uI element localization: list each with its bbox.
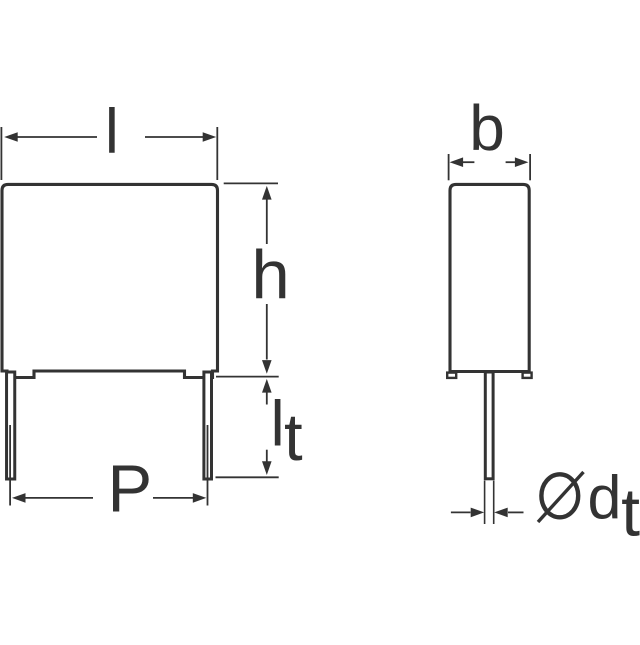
extension line P left xyxy=(9,425,11,506)
extension line b left xyxy=(448,154,450,180)
extension line dt right xyxy=(493,481,495,524)
arrow P right xyxy=(193,493,207,503)
lead right (front view) xyxy=(204,372,212,479)
arrow b right xyxy=(515,157,529,167)
dimension line dt left xyxy=(451,511,471,513)
svg-text:h: h xyxy=(251,237,289,314)
dimension line P xyxy=(25,497,93,499)
svg-text:t: t xyxy=(621,475,640,551)
foot right (side view) xyxy=(523,373,532,378)
extension line h bottom / lt top xyxy=(216,376,279,378)
arrow l left xyxy=(4,132,18,142)
capacitor body side view xyxy=(450,184,529,371)
arrow lt top xyxy=(262,379,272,393)
extension line dt left xyxy=(484,481,486,524)
extension line lt bottom xyxy=(216,476,279,478)
arrow b left xyxy=(450,157,464,167)
extension line l left xyxy=(0,127,2,180)
svg-text:l: l xyxy=(105,97,119,167)
lead left (front view) xyxy=(7,372,15,479)
dimension line h xyxy=(266,200,268,245)
svg-text:b: b xyxy=(469,92,505,164)
lead (side view) xyxy=(485,372,493,479)
svg-text:t: t xyxy=(284,400,303,475)
arrow l right xyxy=(203,132,217,142)
arrow dt right xyxy=(494,508,508,518)
dimension line lt xyxy=(266,393,268,405)
svg-text:P: P xyxy=(107,452,152,527)
arrow h top xyxy=(262,186,272,200)
extension line b right xyxy=(529,154,531,180)
extension line P right xyxy=(207,425,209,506)
extension line h top xyxy=(224,182,278,184)
dimension line b left xyxy=(463,161,474,163)
arrow h bottom xyxy=(262,360,272,374)
foot left (side view) xyxy=(447,373,456,378)
svg-text:d: d xyxy=(588,464,622,532)
arrow dt left xyxy=(471,508,485,518)
label diameter symbol xyxy=(541,474,578,517)
arrow lt bottom xyxy=(262,461,272,475)
arrow P left xyxy=(12,493,26,503)
dimension line b right xyxy=(506,161,516,163)
extension line l right xyxy=(216,127,218,180)
dimension line dt right xyxy=(508,511,524,513)
capacitor body front view xyxy=(2,184,218,377)
dimension line l xyxy=(17,136,98,138)
svg-text:l: l xyxy=(270,388,284,460)
